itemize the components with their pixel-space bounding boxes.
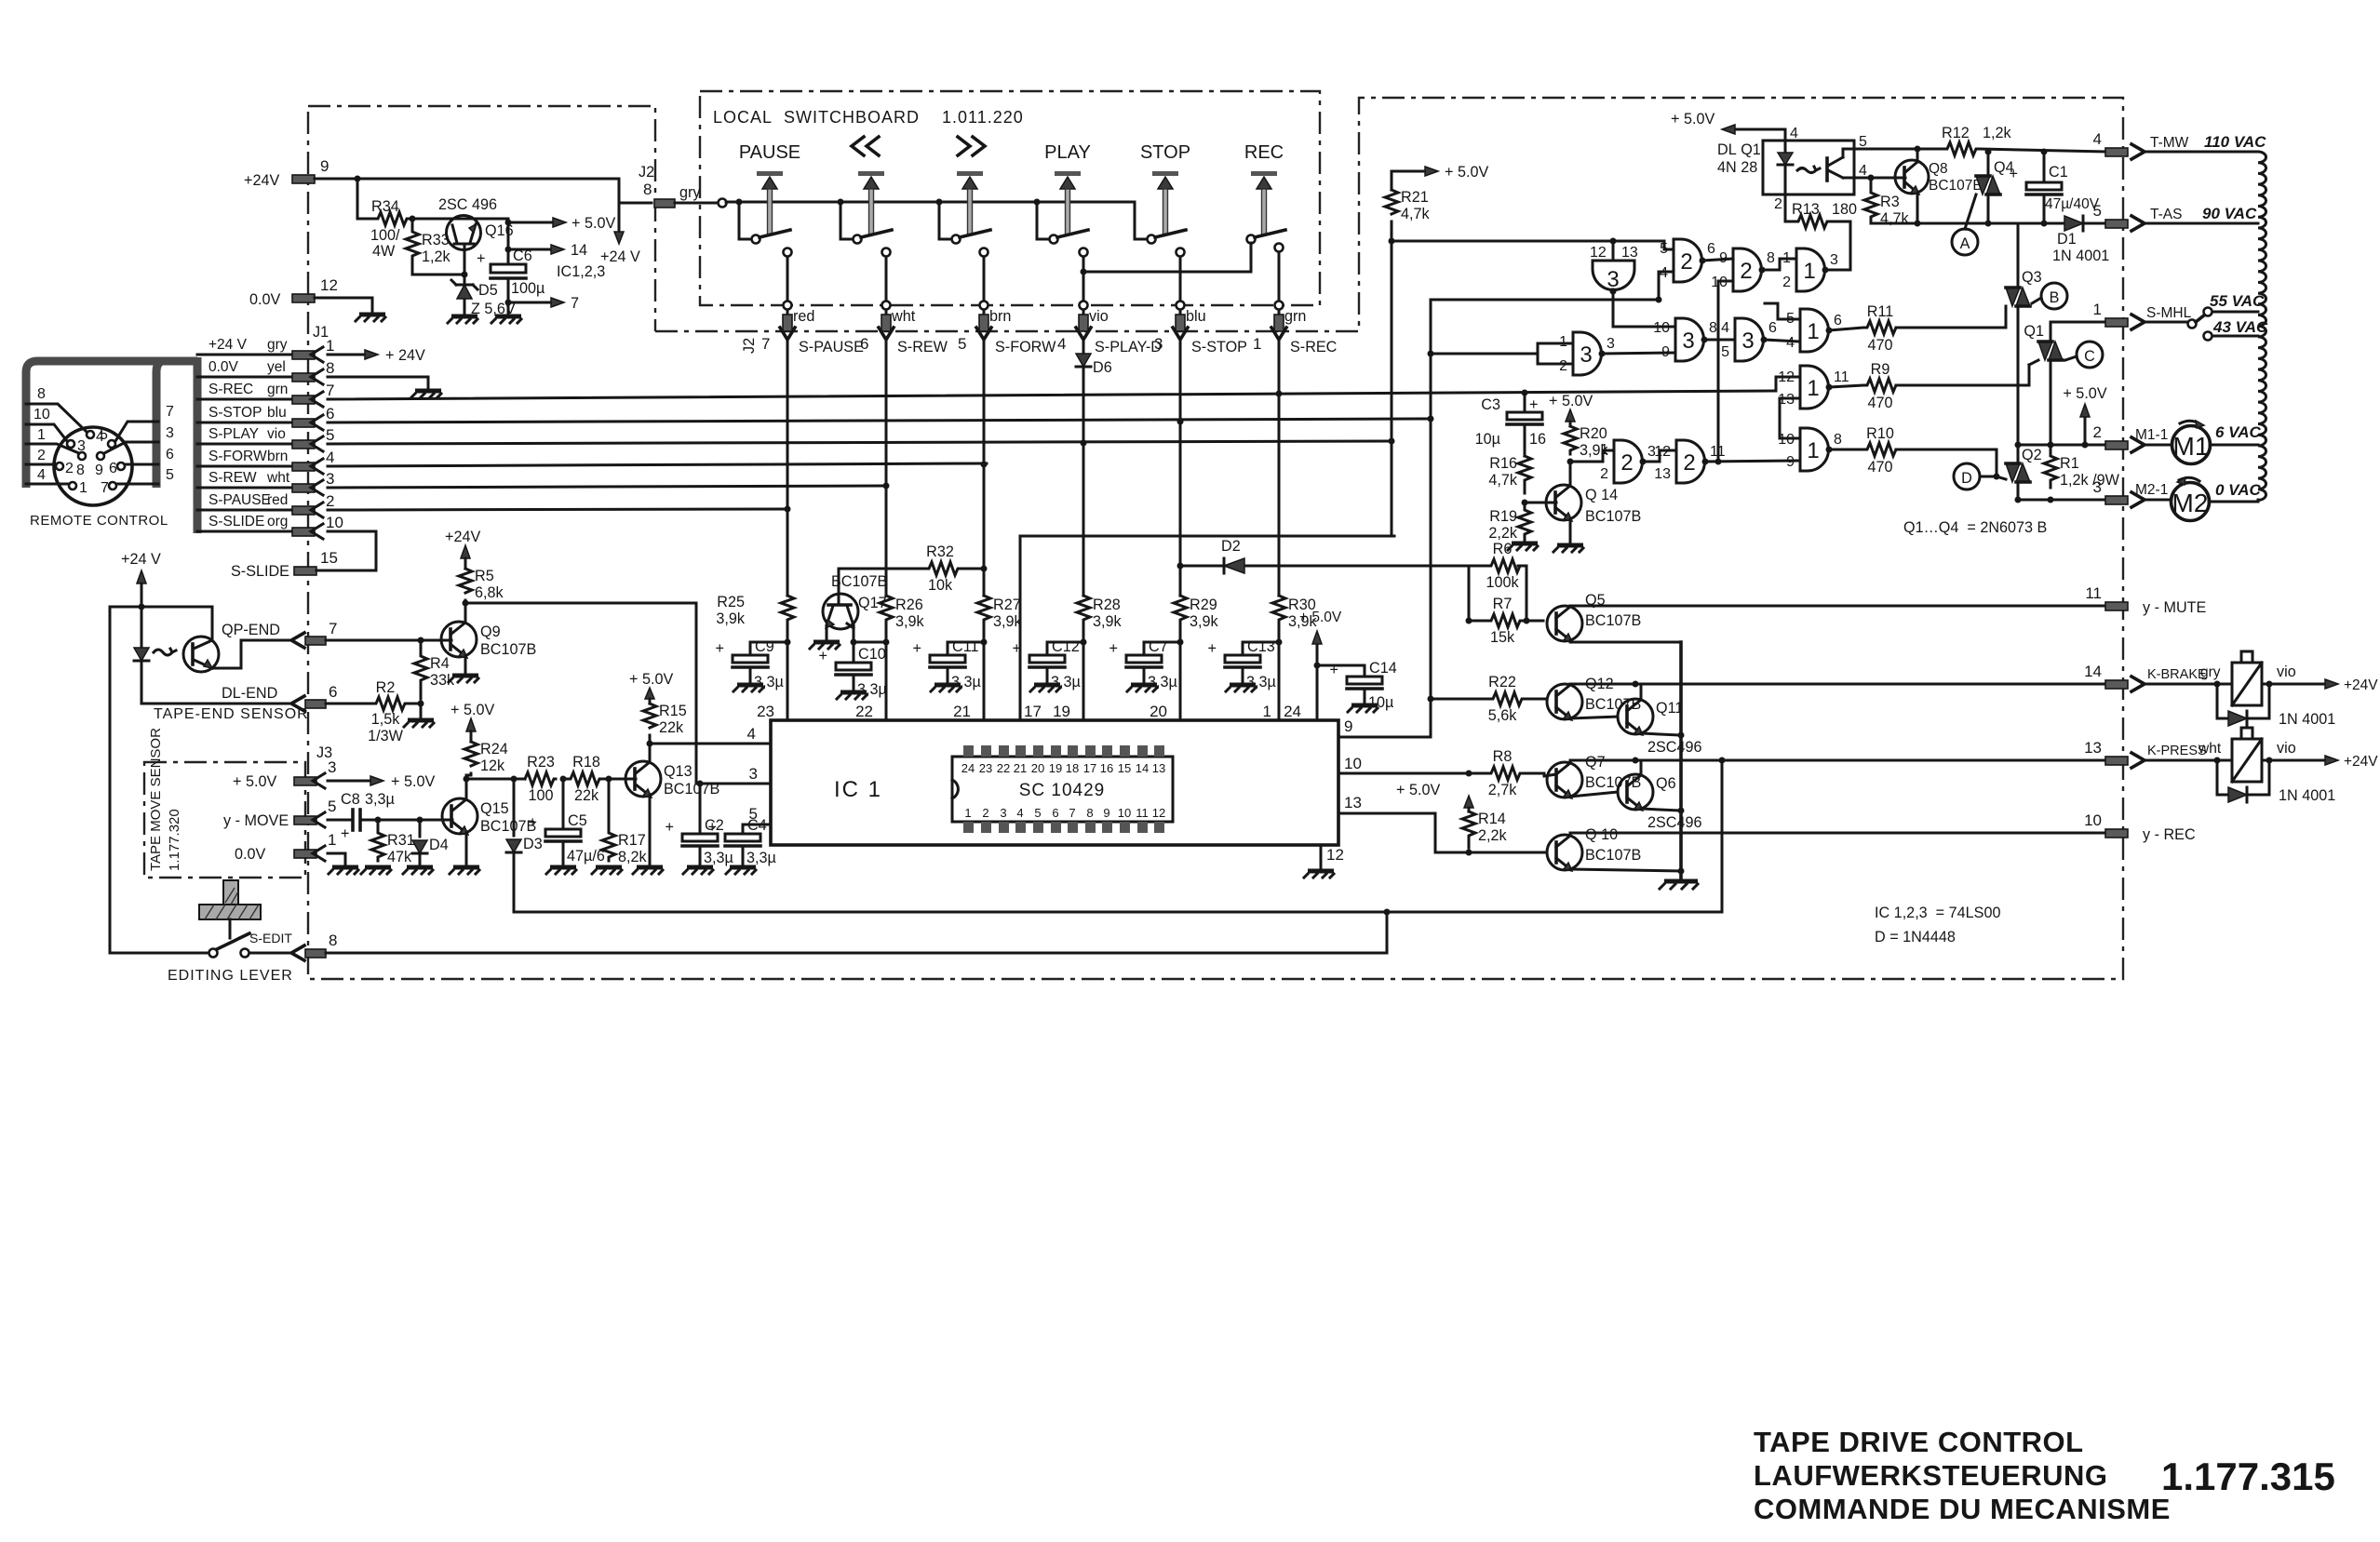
ground under C6 xyxy=(491,316,521,323)
svg-text:1: 1 xyxy=(1253,335,1261,353)
svg-text:17: 17 xyxy=(1083,761,1096,775)
connector pad +24V pin 9 xyxy=(244,157,329,189)
diode D1 1N4001 xyxy=(2052,216,2109,264)
ground under C11 xyxy=(931,685,961,691)
wire R34 drop xyxy=(357,179,374,219)
wire IC pin 13 xyxy=(1338,794,1547,852)
svg-text:+: + xyxy=(341,825,349,842)
connector pad J3 pin 5 y-MOVE xyxy=(223,798,350,829)
phototransistor tape-end sensor xyxy=(183,607,290,672)
svg-text:90 VAC: 90 VAC xyxy=(2202,205,2257,222)
svg-text:R28: R28 xyxy=(1093,597,1121,613)
svg-text:3,9k: 3,9k xyxy=(993,613,1023,630)
svg-text:R24: R24 xyxy=(480,741,508,758)
switch PLAY xyxy=(1037,142,1091,310)
svg-text:4: 4 xyxy=(1016,806,1023,820)
capacitor C6 100u xyxy=(477,220,545,315)
resistor R12 1,2k xyxy=(1854,125,2105,155)
svg-text:S-EDIT: S-EDIT xyxy=(249,931,292,945)
svg-text:2: 2 xyxy=(1774,196,1782,212)
tape move sensor box xyxy=(144,728,305,878)
nand gate IC3 1,2-3 xyxy=(1428,332,1676,375)
svg-text:4: 4 xyxy=(1786,335,1795,351)
svg-text:+24V: +24V xyxy=(244,172,279,189)
svg-text:R20: R20 xyxy=(1580,425,1607,442)
svg-text:LOCAL SWITCHBOARD 1.011.22: LOCAL SWITCHBOARD 1.011.220 xyxy=(713,108,1024,127)
svg-text:4: 4 xyxy=(747,725,756,743)
svg-text:+24 V: +24 V xyxy=(121,551,161,568)
svg-text:5: 5 xyxy=(958,335,966,353)
svg-text:15k: 15k xyxy=(1490,629,1515,646)
transistor Q17 BC107B xyxy=(823,569,887,640)
svg-text:47k: 47k xyxy=(387,849,412,865)
svg-text:23: 23 xyxy=(979,761,992,775)
svg-text:Q9: Q9 xyxy=(480,624,501,640)
svg-text:10: 10 xyxy=(2084,811,2102,829)
svg-text:R32: R32 xyxy=(926,543,954,560)
svg-text:12: 12 xyxy=(320,276,338,294)
svg-text:5: 5 xyxy=(166,467,174,483)
svg-text:1: 1 xyxy=(37,427,46,443)
svg-text:20: 20 xyxy=(1031,761,1044,775)
svg-text:13: 13 xyxy=(1344,794,1362,811)
svg-text:100: 100 xyxy=(528,787,553,804)
ground under C2 xyxy=(683,867,713,874)
svg-text:+: + xyxy=(716,640,724,657)
svg-text:R14: R14 xyxy=(1478,811,1506,827)
connector pad J2 pin 8 xyxy=(639,164,718,208)
svg-text:2: 2 xyxy=(1740,259,1752,284)
svg-text:3: 3 xyxy=(1580,342,1592,368)
svg-text:wht: wht xyxy=(2198,741,2222,757)
transistor Q9 BC107B xyxy=(441,603,536,674)
nand gate IC1 1,2-3 top xyxy=(1762,221,1850,291)
diode K-PRESS 1N4001 xyxy=(2217,760,2335,804)
IC1 block xyxy=(747,720,1338,845)
node gry open circle xyxy=(719,199,727,208)
svg-text:R8: R8 xyxy=(1493,748,1513,765)
svg-text:3: 3 xyxy=(1000,806,1006,820)
svg-text:+: + xyxy=(1330,662,1338,678)
ground under D5 xyxy=(448,316,477,323)
capacitor C5 47u/6 xyxy=(529,779,605,865)
svg-text:3,3µ: 3,3µ xyxy=(365,791,395,808)
svg-text:47µ/6: 47µ/6 xyxy=(567,848,605,865)
svg-text:S-SLIDE: S-SLIDE xyxy=(208,514,264,530)
svg-text:2SC496: 2SC496 xyxy=(1647,814,1702,831)
svg-text:PAUSE: PAUSE xyxy=(739,142,800,163)
zener D5 Z5,6V xyxy=(451,275,516,317)
capacitor C14 10u xyxy=(1330,660,1397,711)
svg-text:24: 24 xyxy=(1284,703,1301,720)
svg-text:8: 8 xyxy=(1767,250,1775,266)
svg-text:R18: R18 xyxy=(572,754,600,771)
remote pin 5 xyxy=(100,404,174,448)
connector pad 0.0V pin 12 xyxy=(249,276,372,313)
svg-text:C12: C12 xyxy=(1052,638,1080,655)
wire S-REC grn bus xyxy=(197,377,1800,407)
ground under C7 xyxy=(1127,685,1157,691)
svg-text:6: 6 xyxy=(1768,320,1777,336)
svg-text:4: 4 xyxy=(2093,130,2102,148)
svg-text:C9: C9 xyxy=(755,638,774,655)
svg-text:22: 22 xyxy=(997,761,1010,775)
resistor R27 3,9k xyxy=(977,596,1023,633)
svg-text:D6: D6 xyxy=(1093,359,1112,376)
resistor R31 47k xyxy=(371,817,415,866)
svg-text:1.177.320: 1.177.320 xyxy=(167,809,182,871)
resistor R21 4,7k xyxy=(1385,164,1488,241)
nand gate IC2 1,2-3 lower xyxy=(1570,440,1656,483)
resistor R25 3,9k xyxy=(716,594,794,633)
svg-text:BC107B: BC107B xyxy=(1585,508,1641,525)
editing lever xyxy=(110,880,293,984)
svg-text:19: 19 xyxy=(1053,703,1070,720)
resistor R19 2,2k xyxy=(1488,500,1531,543)
svg-text:R13: R13 xyxy=(1792,201,1820,218)
svg-text:S-REC: S-REC xyxy=(208,382,253,397)
ground under C4 xyxy=(726,867,756,874)
svg-text:+: + xyxy=(666,819,674,836)
node vio to S-PLAY-D column xyxy=(1081,440,1087,597)
svg-text:3,3µ: 3,3µ xyxy=(704,850,733,866)
svg-text:R26: R26 xyxy=(895,597,923,613)
svg-text:+: + xyxy=(1208,640,1217,657)
svg-text:IC 1,2,3 = 74LS00: IC 1,2,3 = 74LS00 xyxy=(1875,905,2000,921)
svg-text:IC1,2,3: IC1,2,3 xyxy=(557,263,605,280)
svg-text:R21: R21 xyxy=(1401,189,1429,206)
svg-text:C8: C8 xyxy=(341,791,360,808)
svg-text:gry: gry xyxy=(267,337,288,353)
svg-text:Q 10: Q 10 xyxy=(1585,826,1618,843)
svg-text:110 VAC: 110 VAC xyxy=(2204,133,2266,151)
ground under Q14 xyxy=(1553,545,1583,552)
wire emitter rail ground xyxy=(1660,642,1698,889)
svg-text:10: 10 xyxy=(1653,320,1670,336)
svg-text:Q6: Q6 xyxy=(1656,775,1676,792)
svg-text:blu: blu xyxy=(1186,308,1206,325)
J2 pad S-STOP 3 xyxy=(1154,308,1247,399)
svg-text:D4: D4 xyxy=(429,837,449,853)
svg-text:у - REC: у - REC xyxy=(2143,826,2196,843)
transistor Q6 2SC496 xyxy=(1618,760,1702,831)
svg-text:10µ: 10µ xyxy=(1368,694,1393,711)
ground at J3 pin 1 xyxy=(329,867,358,874)
svg-text:R19: R19 xyxy=(1489,508,1517,525)
wire K-BRAKE row left xyxy=(1570,681,2105,688)
svg-text:C7: C7 xyxy=(1149,638,1168,655)
motor M2 xyxy=(2172,477,2262,521)
connector pad J3 pin 3 +5.0V xyxy=(233,758,435,790)
transistor Q16 2SC496 xyxy=(410,196,514,250)
arrow +24V tape-end supply xyxy=(121,551,161,607)
svg-text:100µ: 100µ xyxy=(511,280,545,297)
svg-text:+: + xyxy=(819,648,827,664)
svg-text:BC107B: BC107B xyxy=(1929,178,1983,194)
svg-text:2,7k: 2,7k xyxy=(1488,782,1518,798)
diode D3 xyxy=(506,779,543,912)
svg-text:+ 24V: + 24V xyxy=(385,347,425,364)
svg-text:R6: R6 xyxy=(1493,541,1513,557)
svg-text:12k: 12k xyxy=(480,758,505,774)
remote pin 1 xyxy=(26,467,87,496)
arrow +24V K-PRESS xyxy=(2325,754,2378,770)
svg-text:6: 6 xyxy=(1707,241,1715,257)
svg-text:D3: D3 xyxy=(523,836,543,852)
resistor R28 3,9k xyxy=(1077,596,1123,633)
resistor R5 6,8k xyxy=(459,568,504,607)
svg-text:9: 9 xyxy=(95,463,103,478)
wire S-FORW column to IC pin 21 xyxy=(953,633,987,720)
svg-text:3: 3 xyxy=(1154,335,1163,353)
resistor R2 1,5k 1/3W xyxy=(368,679,424,744)
svg-text:3,9k: 3,9k xyxy=(1093,613,1123,630)
wire blu rail vertical xyxy=(1428,300,1614,737)
svg-text:180: 180 xyxy=(1832,201,1857,218)
svg-text:R25: R25 xyxy=(717,594,745,610)
svg-text:3,3µ: 3,3µ xyxy=(857,681,887,698)
svg-text:1N 4001: 1N 4001 xyxy=(2279,787,2335,804)
resistor R33 1,2k xyxy=(406,219,451,269)
svg-text:R15: R15 xyxy=(659,703,687,719)
wire S-SLIDE org xyxy=(197,514,376,570)
resistor R13 180 xyxy=(1785,194,1857,228)
svg-text:3: 3 xyxy=(1607,336,1615,352)
svg-text:1N 4001: 1N 4001 xyxy=(2279,711,2335,728)
svg-text:REC: REC xyxy=(1244,142,1284,163)
svg-text:5,6k: 5,6k xyxy=(1488,707,1518,724)
svg-text:1: 1 xyxy=(328,831,336,849)
transistor Q7 BC107B xyxy=(1544,754,1641,798)
svg-text:S-PLAY: S-PLAY xyxy=(208,426,259,442)
svg-text:+: + xyxy=(477,250,485,267)
svg-text:BC107B: BC107B xyxy=(664,781,719,798)
capacitor C7 3,3u xyxy=(1109,638,1180,691)
svg-text:C3: C3 xyxy=(1481,396,1500,413)
svg-text:M2: M2 xyxy=(2172,489,2209,517)
svg-text:0.0V: 0.0V xyxy=(235,846,266,863)
svg-text:1/3W: 1/3W xyxy=(368,728,404,744)
svg-text:3,9k: 3,9k xyxy=(716,610,746,627)
svg-text:IC 1: IC 1 xyxy=(834,777,882,802)
capacitor C9 3,3u xyxy=(716,638,787,691)
svg-text:4: 4 xyxy=(1721,320,1729,336)
svg-text:Q2: Q2 xyxy=(2022,447,2042,463)
svg-text:22k: 22k xyxy=(574,787,599,804)
capacitor C8 3,3u series xyxy=(341,791,442,842)
svg-text:2: 2 xyxy=(1782,275,1791,290)
svg-text:+: + xyxy=(1529,396,1538,413)
resistor R7 15k xyxy=(1469,596,1543,646)
svg-text:3,3µ: 3,3µ xyxy=(754,674,784,691)
svg-text:23: 23 xyxy=(757,703,774,720)
svg-text:T-MW: T-MW xyxy=(2150,135,2189,151)
svg-text:3,9k: 3,9k xyxy=(1190,613,1219,630)
wire Q16 base to D5 node xyxy=(412,244,468,278)
svg-text:2: 2 xyxy=(326,492,334,510)
svg-text:M1: M1 xyxy=(2173,432,2210,461)
wire pin 17 feed xyxy=(1020,536,1394,720)
triac Q1 xyxy=(2024,322,2105,449)
switch S-MHL xyxy=(2188,292,2268,341)
wire switchboard bus xyxy=(726,199,1135,206)
ground at J1 pin 8 xyxy=(411,391,441,397)
svg-text:2SC 496: 2SC 496 xyxy=(438,196,497,213)
svg-text:grn: grn xyxy=(267,382,288,397)
arrow +24V K-BRAKE xyxy=(2325,677,2378,693)
svg-text:EDITING LEVER: EDITING LEVER xyxy=(168,968,293,984)
svg-text:+: + xyxy=(529,814,537,831)
remote pin 8 xyxy=(26,427,86,478)
svg-text:gry: gry xyxy=(679,184,701,201)
svg-text:yel: yel xyxy=(267,359,286,375)
wire +5.0V C14 rail pin 24 xyxy=(1284,610,1365,720)
svg-text:2: 2 xyxy=(1620,450,1633,476)
transistor Q14 BC107B xyxy=(1525,462,1641,543)
connector pad S-EDIT 8 xyxy=(249,912,1387,960)
svg-text:A: A xyxy=(1960,235,1970,252)
svg-text:8: 8 xyxy=(326,359,334,377)
svg-text:gry: gry xyxy=(2200,664,2221,680)
svg-text:10: 10 xyxy=(34,407,50,422)
svg-text:S-STOP: S-STOP xyxy=(1191,339,1247,355)
ground under C9 xyxy=(733,685,763,691)
node blu to S-STOP column xyxy=(1177,399,1184,596)
svg-text:3: 3 xyxy=(166,425,174,441)
svg-text:7: 7 xyxy=(326,382,334,399)
svg-text:+24V: +24V xyxy=(2344,754,2378,770)
J2 pad S-PLAY-D 4 xyxy=(1057,308,1162,355)
wire S-STOP blu bus xyxy=(197,405,1431,430)
svg-text:6: 6 xyxy=(166,447,174,463)
svg-text:1: 1 xyxy=(1807,319,1819,344)
arrow +5.0V M1 row xyxy=(2063,385,2106,445)
svg-text:55 VAC: 55 VAC xyxy=(2210,292,2265,310)
wire S-PLAY-D column to IC pin 19 xyxy=(1053,633,1086,720)
svg-text:6: 6 xyxy=(1052,806,1058,820)
node circle A xyxy=(1952,229,1978,255)
svg-text:5: 5 xyxy=(2093,202,2102,220)
wire T-AS row xyxy=(1871,222,2105,225)
svg-text:C14: C14 xyxy=(1369,660,1397,677)
svg-text:1.177.315: 1.177.315 xyxy=(2161,1455,2335,1498)
J1 pin 1 +24V gry xyxy=(197,337,425,364)
svg-text:14: 14 xyxy=(1136,761,1149,775)
svg-text:21: 21 xyxy=(1014,761,1027,775)
svg-text:wht: wht xyxy=(891,308,916,325)
ground under Q15 xyxy=(450,867,479,874)
capacitor C2 3,3u xyxy=(666,781,733,867)
svg-text:Q8: Q8 xyxy=(1929,161,1948,177)
svg-text:S-PLAY-D: S-PLAY-D xyxy=(1095,339,1162,355)
svg-text:7: 7 xyxy=(329,620,337,637)
arrow +5.0V above R24 xyxy=(450,702,494,742)
svg-text:+24 V: +24 V xyxy=(600,248,640,265)
transistor Q11 2SC496 xyxy=(1618,684,1702,756)
svg-text:C5: C5 xyxy=(568,812,587,829)
connector pad M2-1 3 xyxy=(2093,478,2171,507)
resistor R22 5,6k xyxy=(1431,674,1546,724)
label IC1,2,3 xyxy=(557,263,605,280)
svg-text:12: 12 xyxy=(1590,245,1607,261)
node brn to S-FORW column xyxy=(981,399,988,596)
svg-text:22k: 22k xyxy=(659,719,684,736)
svg-text:6: 6 xyxy=(109,461,117,476)
svg-text:5: 5 xyxy=(1721,344,1729,360)
connector J2 rotated label xyxy=(741,338,758,354)
svg-text:+ 5.0V: + 5.0V xyxy=(1445,164,1488,181)
svg-text:5: 5 xyxy=(749,805,758,823)
svg-text:1: 1 xyxy=(1263,703,1271,720)
remote pin 2 xyxy=(26,448,74,476)
connector pad J3 pin 1 0.0V xyxy=(235,831,345,865)
svg-text:1,2k: 1,2k xyxy=(1983,125,2012,141)
svg-text:Q13: Q13 xyxy=(664,763,692,780)
nand gate IC3 12,13-3 rotated xyxy=(1590,241,1675,327)
connector pad S-MHL 1 xyxy=(2093,301,2192,329)
connector pad T-MW 4 xyxy=(2093,130,2267,159)
svg-text:3,3µ: 3,3µ xyxy=(1246,674,1276,691)
svg-text:vio: vio xyxy=(1089,308,1109,325)
ground under Q17 xyxy=(810,642,840,649)
svg-text:R3: R3 xyxy=(1880,194,1900,210)
svg-text:C11: C11 xyxy=(952,638,979,655)
ground under R31 xyxy=(361,867,391,874)
svg-text:3: 3 xyxy=(326,470,334,488)
svg-text:2: 2 xyxy=(1559,358,1567,374)
svg-text:6: 6 xyxy=(1834,313,1842,329)
switch forward >> xyxy=(939,137,990,310)
svg-text:11: 11 xyxy=(2085,584,2102,602)
capacitor C4 3,3u xyxy=(708,817,776,866)
ground under C10 xyxy=(837,692,867,699)
svg-text:D2: D2 xyxy=(1221,538,1241,555)
svg-text:S-REW: S-REW xyxy=(897,339,948,355)
svg-text:22: 22 xyxy=(855,703,873,720)
svg-text:8: 8 xyxy=(643,181,652,198)
resistor R20 3,9k xyxy=(1564,425,1609,465)
ground under R19 xyxy=(1508,543,1538,550)
svg-text:S-PAUSE: S-PAUSE xyxy=(208,492,271,508)
remote pin 9 xyxy=(95,425,174,478)
svg-text:5: 5 xyxy=(1859,134,1867,150)
svg-text:R5: R5 xyxy=(475,568,494,584)
svg-text:2,2k: 2,2k xyxy=(1488,525,1518,542)
resistor R6 100k xyxy=(1466,541,1530,624)
wire feedback bus lower xyxy=(514,758,1726,916)
transistor Q10 BC107B xyxy=(1547,826,1685,875)
J2 pad S-REC 1 xyxy=(1253,308,1338,399)
svg-text:14: 14 xyxy=(2084,663,2102,680)
svg-text:11: 11 xyxy=(1834,369,1849,385)
svg-text:S-REC: S-REC xyxy=(1290,339,1338,355)
connector pad M1-1 2 xyxy=(2093,423,2172,452)
svg-text:3,9k: 3,9k xyxy=(895,613,925,630)
svg-text:R29: R29 xyxy=(1190,597,1217,613)
svg-text:2: 2 xyxy=(65,461,74,476)
board outline main dash-dot border xyxy=(308,98,2123,979)
svg-text:13: 13 xyxy=(1654,466,1671,482)
svg-text:D5: D5 xyxy=(478,282,498,299)
svg-text:Q15: Q15 xyxy=(480,800,509,817)
svg-text:9: 9 xyxy=(320,157,329,175)
svg-text:1: 1 xyxy=(1803,259,1815,284)
J2 pad S-REW 6 xyxy=(860,308,948,399)
wire Q9 collector node to IC pin 3 xyxy=(465,603,771,784)
svg-text:Q1: Q1 xyxy=(2024,323,2044,340)
resistor R34 100/4W xyxy=(370,198,410,260)
svg-text:3: 3 xyxy=(749,765,758,783)
